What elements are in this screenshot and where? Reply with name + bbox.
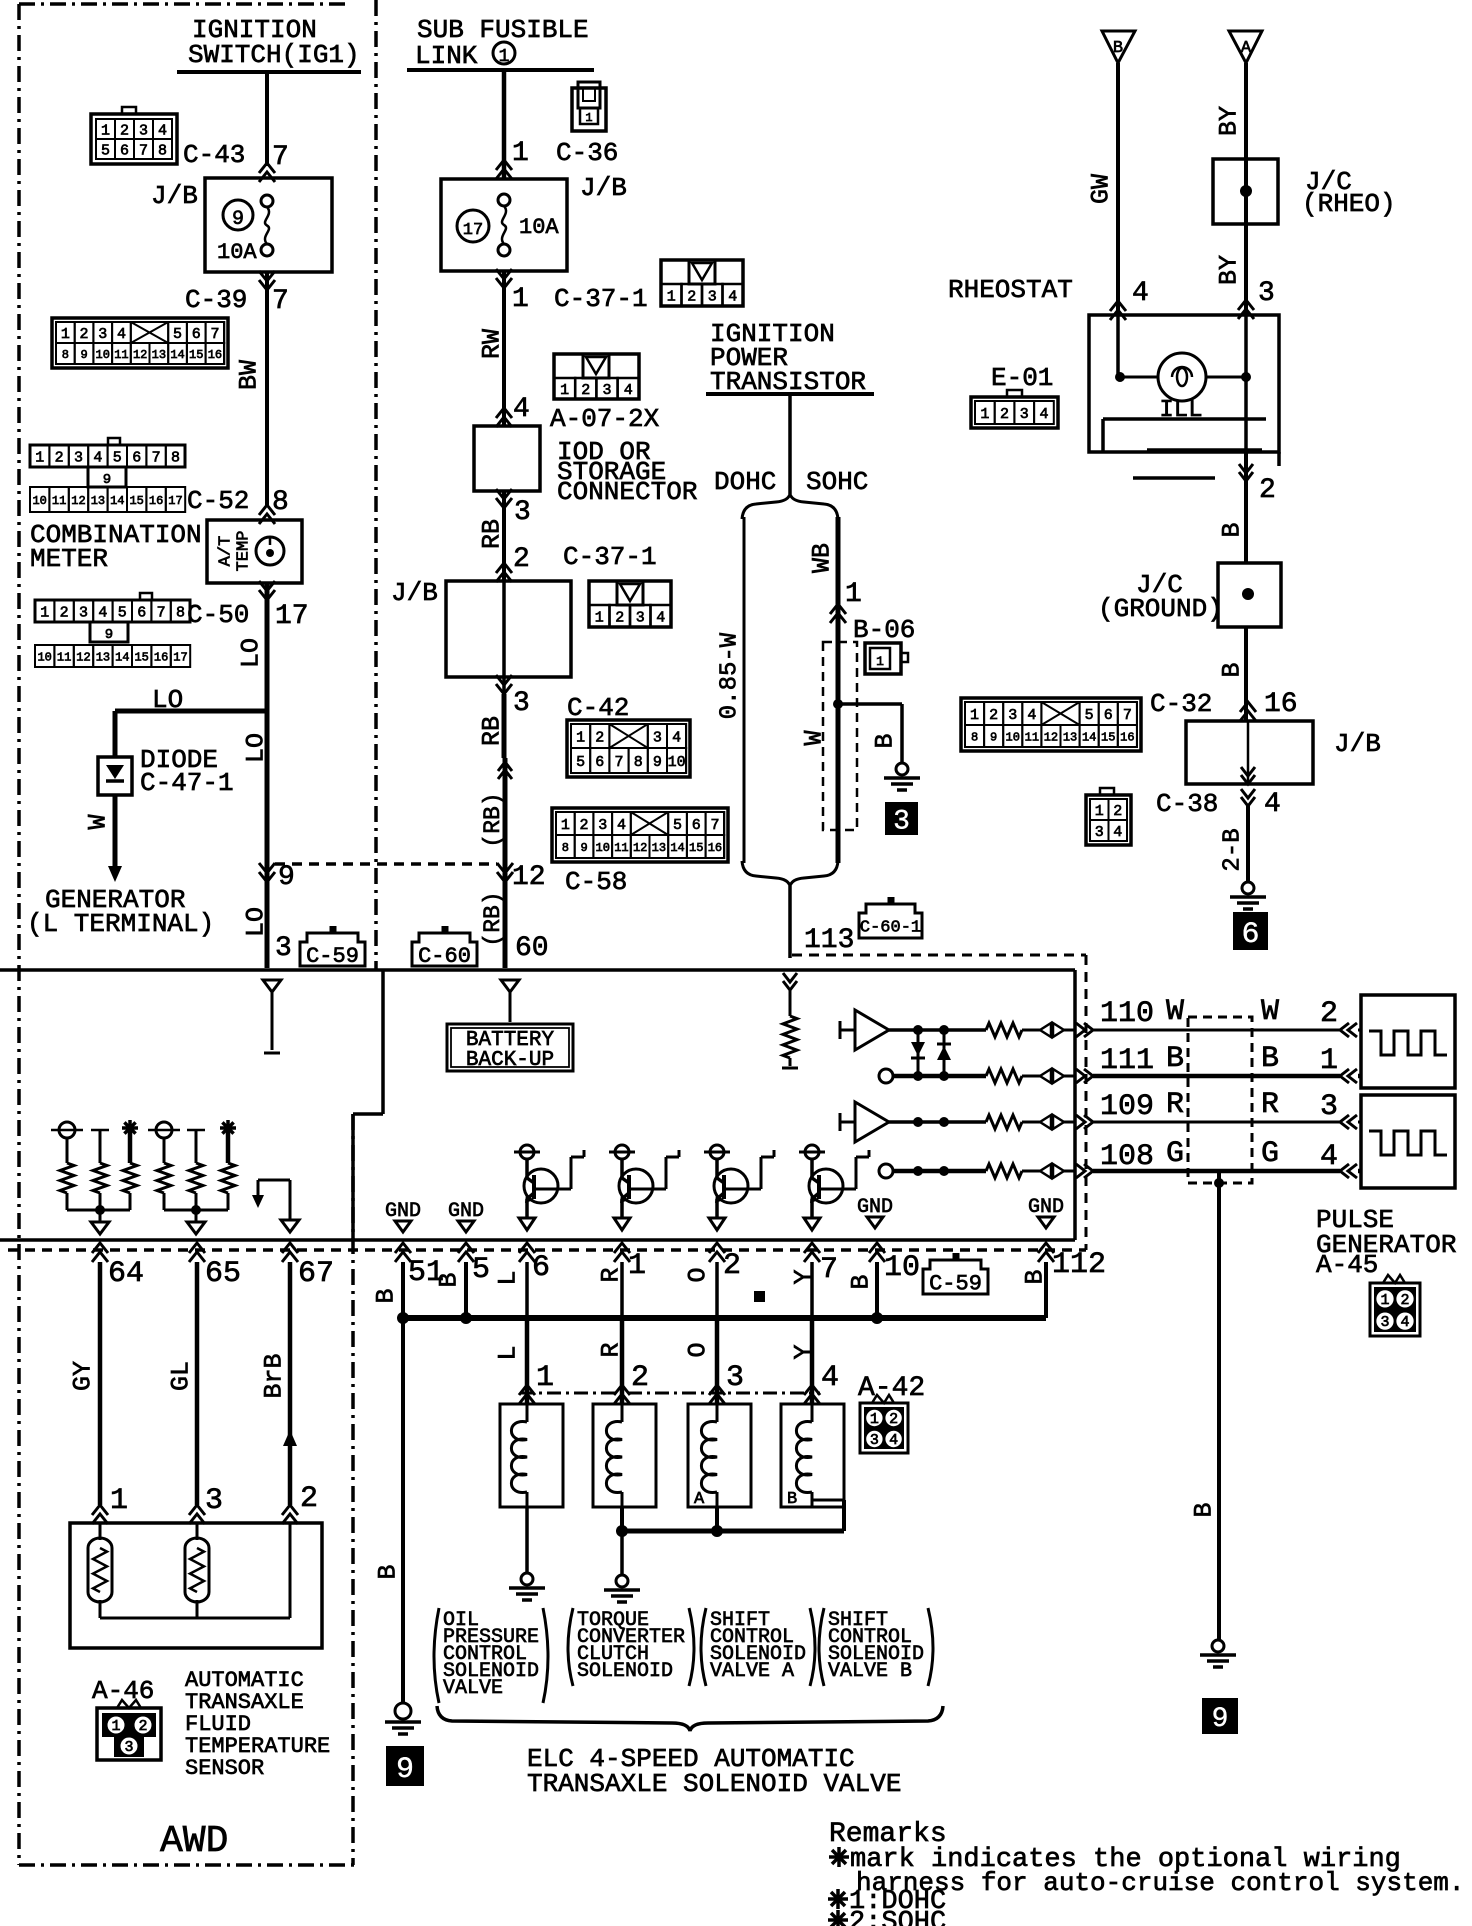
svg-text:3: 3 (74, 449, 83, 466)
svg-text:10: 10 (596, 841, 610, 855)
svg-text:1: 1 (1380, 1292, 1389, 1309)
svg-text:9: 9 (396, 1753, 414, 1787)
svg-text:0.85-W: 0.85-W (717, 632, 744, 719)
svg-text:1: 1 (561, 817, 570, 834)
svg-text:VALVE B: VALVE B (828, 1660, 912, 1683)
svg-text:2: 2 (595, 729, 604, 746)
svg-text:14: 14 (110, 494, 124, 508)
svg-text:15: 15 (1101, 730, 1115, 744)
svg-text:4: 4 (513, 394, 530, 425)
svg-text:L: L (494, 1270, 523, 1285)
svg-text:11: 11 (57, 650, 71, 664)
svg-text:SOLENOID: SOLENOID (577, 1660, 673, 1683)
svg-text:64: 64 (108, 1257, 144, 1291)
svg-text:C-32: C-32 (1150, 689, 1212, 719)
svg-text:11: 11 (1025, 730, 1039, 744)
svg-text:8: 8 (634, 754, 643, 771)
svg-text:13: 13 (1063, 730, 1077, 744)
svg-text:Y: Y (790, 1344, 819, 1359)
svg-text:4: 4 (1132, 278, 1149, 309)
svg-text:4: 4 (656, 609, 665, 626)
svg-text:14: 14 (1082, 730, 1096, 744)
svg-text:13: 13 (652, 841, 666, 855)
svg-text:4: 4 (158, 122, 167, 139)
svg-text:10: 10 (37, 650, 51, 664)
svg-text:G: G (1166, 1137, 1184, 1171)
svg-text:10: 10 (96, 348, 110, 362)
svg-text:1: 1 (35, 449, 44, 466)
svg-text:4: 4 (728, 288, 737, 305)
svg-text:RW: RW (478, 329, 507, 359)
svg-text:BY: BY (1215, 106, 1244, 136)
svg-text:A-07-2X: A-07-2X (550, 404, 660, 434)
svg-text:Y: Y (790, 1269, 819, 1284)
svg-text:4: 4 (1113, 824, 1122, 841)
svg-text:4: 4 (1320, 1140, 1338, 1174)
svg-text:3: 3 (275, 933, 292, 964)
svg-text:3: 3 (636, 609, 645, 626)
svg-text:1: 1 (1095, 803, 1104, 820)
svg-text:7: 7 (272, 286, 289, 317)
svg-text:2:SOHC: 2:SOHC (849, 1908, 946, 1926)
svg-text:1: 1 (628, 1249, 646, 1283)
svg-text:2: 2 (80, 326, 89, 343)
svg-text:1: 1 (512, 138, 529, 169)
svg-text:5: 5 (173, 326, 182, 343)
svg-text:3: 3 (124, 1739, 133, 1756)
svg-text:C-39: C-39 (185, 285, 247, 315)
svg-text:15: 15 (689, 841, 703, 855)
svg-text:4: 4 (1400, 1314, 1409, 1331)
svg-text:6: 6 (692, 817, 701, 834)
svg-text:J/B: J/B (1334, 729, 1381, 759)
svg-text:3: 3 (602, 382, 611, 399)
svg-text:8: 8 (62, 348, 69, 362)
svg-text:3: 3 (653, 729, 662, 746)
svg-text:J/B: J/B (151, 181, 198, 211)
svg-text:2: 2 (1000, 406, 1009, 423)
svg-text:16: 16 (708, 841, 722, 855)
svg-text:5: 5 (1085, 707, 1094, 724)
svg-text:B: B (1113, 39, 1123, 58)
svg-text:3: 3 (1020, 406, 1029, 423)
svg-text:2: 2 (687, 288, 696, 305)
svg-text:17: 17 (463, 221, 483, 240)
svg-text:B: B (1166, 1042, 1184, 1076)
svg-text:16: 16 (1264, 689, 1298, 720)
svg-text:11: 11 (614, 841, 628, 855)
svg-text:2: 2 (580, 817, 589, 834)
svg-text:C-59: C-59 (929, 1271, 982, 1296)
svg-text:O: O (684, 1342, 713, 1357)
svg-text:9: 9 (232, 208, 244, 231)
svg-text:6: 6 (532, 1251, 550, 1285)
svg-text:LO: LO (237, 638, 266, 668)
svg-text:AWD: AWD (160, 1820, 228, 1863)
svg-text:W: W (800, 730, 829, 745)
svg-text:LINK: LINK (415, 41, 478, 71)
svg-text:2: 2 (1259, 475, 1276, 506)
svg-text:GL: GL (167, 1361, 196, 1391)
svg-text:RB: RB (478, 519, 507, 549)
svg-text:RB: RB (478, 716, 507, 746)
svg-text:W: W (84, 814, 113, 829)
svg-text:65: 65 (205, 1257, 241, 1291)
svg-text:2: 2 (581, 382, 590, 399)
svg-text:E-01: E-01 (991, 363, 1053, 393)
svg-text:9: 9 (580, 841, 587, 855)
svg-text:10: 10 (1006, 730, 1020, 744)
svg-text:C-37-1: C-37-1 (563, 542, 657, 572)
svg-text:111: 111 (1100, 1044, 1154, 1078)
svg-text:9: 9 (990, 730, 997, 744)
svg-text:4: 4 (98, 604, 107, 621)
svg-text:15: 15 (189, 348, 203, 362)
svg-text:R: R (1261, 1088, 1279, 1122)
svg-text:9: 9 (105, 627, 113, 643)
svg-text:8: 8 (971, 730, 978, 744)
svg-text:5: 5 (101, 142, 110, 159)
svg-text:4: 4 (1027, 707, 1036, 724)
svg-text:3: 3 (708, 288, 717, 305)
svg-text:12: 12 (512, 862, 546, 893)
svg-text:16: 16 (1120, 730, 1134, 744)
svg-text:VALVE A: VALVE A (710, 1660, 794, 1683)
svg-text:BACK-UP: BACK-UP (466, 1049, 554, 1072)
svg-text:B: B (1190, 1502, 1219, 1517)
svg-text:A: A (694, 1490, 705, 1509)
svg-text:1: 1 (560, 382, 569, 399)
svg-text:14: 14 (670, 841, 684, 855)
svg-text:2: 2 (1320, 997, 1338, 1031)
svg-text:6: 6 (595, 754, 604, 771)
svg-text:4: 4 (1039, 406, 1048, 423)
svg-text:7: 7 (272, 142, 289, 173)
svg-text:3: 3 (205, 1484, 223, 1518)
svg-text:12: 12 (71, 494, 85, 508)
svg-text:3: 3 (598, 817, 607, 834)
svg-text:1: 1 (512, 284, 529, 315)
svg-text:METER: METER (30, 544, 108, 574)
svg-text:2: 2 (615, 609, 624, 626)
svg-text:113: 113 (804, 925, 854, 956)
svg-text:3: 3 (1095, 824, 1104, 841)
svg-text:13: 13 (96, 650, 110, 664)
svg-text:2: 2 (1400, 1292, 1409, 1309)
svg-text:67: 67 (298, 1257, 334, 1291)
svg-text:R: R (1166, 1088, 1184, 1122)
svg-text:12: 12 (633, 841, 647, 855)
svg-text:5: 5 (118, 604, 127, 621)
svg-text:B: B (787, 1490, 797, 1509)
svg-text:16: 16 (154, 650, 168, 664)
svg-text:10: 10 (884, 1251, 920, 1285)
svg-text:harness for auto-cruise contro: harness for auto-cruise control system. (856, 1868, 1465, 1898)
svg-text:4: 4 (117, 326, 126, 343)
svg-text:10A: 10A (519, 215, 559, 240)
svg-text:5: 5 (673, 817, 682, 834)
svg-text:1: 1 (110, 1484, 128, 1518)
svg-text:W: W (1261, 995, 1279, 1029)
svg-text:1: 1 (870, 1411, 879, 1428)
svg-text:C-60-1: C-60-1 (860, 919, 921, 938)
svg-text:C-37-1: C-37-1 (554, 284, 648, 314)
svg-text:2: 2 (631, 1361, 649, 1395)
svg-text:(GROUND): (GROUND) (1098, 594, 1223, 624)
svg-text:112: 112 (1052, 1248, 1106, 1282)
svg-text:(RHEO): (RHEO) (1302, 189, 1396, 219)
svg-text:SENSOR: SENSOR (185, 1756, 264, 1781)
svg-text:3: 3 (893, 807, 910, 838)
svg-text:RHEOSTAT: RHEOSTAT (948, 275, 1073, 305)
svg-text:6: 6 (137, 604, 146, 621)
svg-text:A-45: A-45 (1316, 1250, 1378, 1280)
svg-text:B: B (871, 733, 900, 748)
svg-text:3: 3 (513, 688, 530, 719)
svg-text:3: 3 (1380, 1314, 1389, 1331)
svg-text:7: 7 (710, 817, 719, 834)
svg-text:2: 2 (120, 122, 129, 139)
svg-text:WB: WB (808, 543, 837, 573)
svg-text:B: B (847, 1274, 876, 1289)
svg-text:1: 1 (576, 729, 585, 746)
svg-text:6: 6 (120, 142, 129, 159)
svg-text:A/T: A/T (217, 536, 236, 567)
svg-text:2: 2 (138, 1718, 147, 1735)
svg-text:DOHC: DOHC (714, 467, 776, 497)
svg-text:1: 1 (845, 579, 862, 610)
svg-text:110: 110 (1100, 997, 1154, 1031)
svg-text:BY: BY (1215, 255, 1244, 285)
svg-text:3: 3 (139, 122, 148, 139)
svg-text:C-50: C-50 (187, 600, 249, 630)
svg-text:4: 4 (1264, 789, 1281, 820)
svg-text:R: R (597, 1267, 626, 1282)
svg-text:B: B (372, 1288, 401, 1303)
svg-text:J/B: J/B (580, 173, 627, 203)
svg-text:2: 2 (60, 604, 69, 621)
svg-text:2: 2 (723, 1249, 741, 1283)
svg-text:6: 6 (1241, 918, 1259, 952)
svg-text:CONNECTOR: CONNECTOR (557, 477, 697, 507)
svg-text:4: 4 (93, 449, 102, 466)
svg-text:1: 1 (595, 609, 604, 626)
svg-text:4: 4 (672, 729, 681, 746)
svg-text:SOHC: SOHC (806, 467, 868, 497)
svg-text:C-52: C-52 (187, 486, 249, 516)
svg-text:13: 13 (152, 348, 166, 362)
svg-text:2: 2 (1113, 803, 1122, 820)
svg-text:11: 11 (52, 494, 66, 508)
svg-text:3: 3 (1258, 278, 1275, 309)
svg-text:C-58: C-58 (565, 867, 627, 897)
svg-text:R: R (597, 1342, 626, 1357)
svg-text:12: 12 (133, 348, 147, 362)
svg-text:1: 1 (536, 1361, 554, 1395)
svg-text:1: 1 (61, 326, 70, 343)
svg-text:6: 6 (1104, 707, 1113, 724)
svg-text:3: 3 (98, 326, 107, 343)
svg-text:5: 5 (472, 1253, 490, 1287)
svg-text:C-47-1: C-47-1 (140, 768, 234, 798)
svg-text:B: B (1218, 522, 1247, 537)
svg-text:11: 11 (114, 348, 128, 362)
svg-text:L: L (494, 1345, 523, 1360)
svg-text:14: 14 (170, 348, 184, 362)
svg-text:7: 7 (157, 604, 166, 621)
svg-text:C-38: C-38 (1156, 789, 1218, 819)
svg-text:8: 8 (176, 604, 185, 621)
svg-text:10A: 10A (217, 240, 257, 265)
svg-text:B-06: B-06 (853, 615, 915, 645)
svg-text:5: 5 (113, 449, 122, 466)
svg-text:10: 10 (32, 494, 46, 508)
svg-text:(L TERMINAL): (L TERMINAL) (27, 909, 214, 939)
svg-text:60: 60 (515, 933, 549, 964)
svg-text:GW: GW (1087, 174, 1116, 204)
svg-text:10: 10 (668, 754, 686, 771)
svg-text:C-43: C-43 (183, 140, 245, 170)
svg-text:1: 1 (1320, 1044, 1338, 1078)
svg-text:8: 8 (562, 841, 569, 855)
svg-text:9: 9 (103, 472, 111, 488)
svg-text:7: 7 (139, 142, 148, 159)
svg-text:1: 1 (111, 1718, 120, 1735)
svg-text:108: 108 (1100, 1140, 1154, 1174)
svg-text:1: 1 (876, 654, 884, 669)
svg-text:1: 1 (40, 604, 49, 621)
svg-text:8: 8 (158, 142, 167, 159)
svg-text:C-59: C-59 (306, 944, 359, 969)
svg-text:15: 15 (129, 494, 143, 508)
svg-text:13: 13 (91, 494, 105, 508)
svg-text:TRANSAXLE SOLENOID VALVE: TRANSAXLE SOLENOID VALVE (527, 1769, 901, 1799)
svg-text:3: 3 (79, 604, 88, 621)
svg-text:1: 1 (499, 47, 510, 67)
svg-text:1: 1 (101, 122, 110, 139)
svg-text:7: 7 (614, 754, 623, 771)
svg-text:7: 7 (152, 449, 161, 466)
svg-text:C-60: C-60 (418, 944, 471, 969)
svg-text:B: B (435, 1272, 464, 1287)
svg-text:2: 2 (889, 1411, 898, 1428)
svg-text:ILL: ILL (1159, 397, 1202, 424)
svg-text:9: 9 (1212, 1704, 1229, 1735)
svg-text:6: 6 (132, 449, 141, 466)
svg-text:1: 1 (667, 288, 676, 305)
svg-text:2-B: 2-B (1220, 828, 1247, 871)
svg-text:2: 2 (55, 449, 64, 466)
svg-text:B: B (1218, 662, 1247, 677)
svg-text:6: 6 (192, 326, 201, 343)
svg-text:17: 17 (168, 494, 182, 508)
svg-text:8: 8 (171, 449, 180, 466)
svg-text:12: 12 (76, 650, 90, 664)
svg-text:109: 109 (1100, 1090, 1154, 1124)
svg-text:2: 2 (513, 544, 530, 575)
svg-text:J/B: J/B (391, 578, 438, 608)
svg-text:SWITCH(IG1): SWITCH(IG1) (188, 40, 360, 70)
svg-text:4: 4 (821, 1361, 839, 1395)
svg-text:16: 16 (208, 348, 222, 362)
svg-text:9: 9 (653, 754, 662, 771)
svg-text:3: 3 (1008, 707, 1017, 724)
svg-text:7: 7 (1123, 707, 1132, 724)
svg-text:7: 7 (210, 326, 219, 343)
svg-text:14: 14 (115, 650, 129, 664)
svg-text:16: 16 (149, 494, 163, 508)
svg-text:BW: BW (235, 360, 264, 390)
svg-text:VALVE: VALVE (443, 1677, 503, 1700)
svg-text:1: 1 (970, 707, 979, 724)
svg-text:C-36: C-36 (556, 138, 618, 168)
svg-text:4: 4 (617, 817, 626, 834)
svg-text:TEMP: TEMP (235, 531, 254, 572)
svg-text:3: 3 (514, 497, 531, 528)
svg-text:A: A (1241, 39, 1252, 58)
svg-text:G: G (1261, 1137, 1279, 1171)
svg-text:3: 3 (726, 1361, 744, 1395)
svg-text:1: 1 (585, 111, 592, 125)
svg-text:(RB): (RB) (480, 792, 506, 847)
svg-text:5: 5 (576, 754, 585, 771)
svg-text:W: W (1166, 995, 1184, 1029)
svg-text:2: 2 (989, 707, 998, 724)
svg-text:4: 4 (889, 1432, 898, 1449)
svg-text:2: 2 (300, 1482, 318, 1516)
svg-text:17: 17 (173, 650, 187, 664)
svg-text:7: 7 (820, 1253, 838, 1287)
svg-text:9: 9 (80, 348, 87, 362)
svg-text:12: 12 (1044, 730, 1058, 744)
svg-text:4: 4 (624, 382, 633, 399)
svg-text:3: 3 (870, 1432, 879, 1449)
svg-text:1: 1 (980, 406, 989, 423)
svg-text:(RB): (RB) (480, 891, 506, 946)
svg-text:O: O (684, 1267, 713, 1282)
svg-text:15: 15 (134, 650, 148, 664)
svg-text:B: B (1261, 1042, 1279, 1076)
svg-text:9: 9 (278, 862, 295, 893)
svg-text:3: 3 (1320, 1090, 1338, 1124)
svg-text:17: 17 (275, 601, 309, 632)
svg-text:GY: GY (69, 1361, 98, 1391)
svg-text:B: B (374, 1564, 403, 1579)
svg-text:BrB: BrB (260, 1353, 289, 1398)
